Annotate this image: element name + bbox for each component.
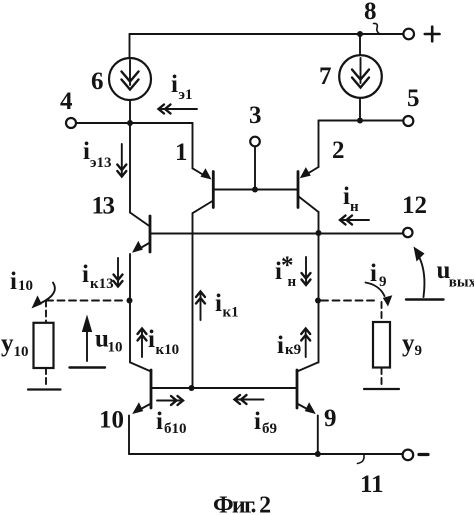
current arrow i_к1: [196, 292, 205, 321]
voltage arrow u_вых: [406, 247, 444, 300]
svg-text:y: y: [1, 330, 14, 357]
svg-text:i: i: [10, 268, 17, 295]
svg-text:6: 6: [91, 68, 104, 95]
current source 6: [109, 58, 151, 100]
svg-text:3: 3: [249, 102, 262, 129]
wire emitter 13 down lead: [129, 254, 131, 363]
terminal 5: [403, 116, 413, 126]
transistor 1 (PNP): [193, 123, 214, 213]
wire dashed left lower: [45, 368, 47, 387]
junction dot base rail: [252, 187, 258, 193]
junction dot emitter 9 / bottom rail: [315, 451, 321, 457]
svg-text:к1: к1: [223, 305, 239, 321]
label i_б10: [156, 408, 187, 437]
terminal 11: [403, 450, 414, 461]
label i*_н: [275, 252, 297, 290]
current arrow i_н: [340, 216, 369, 225]
current arrow i_б9: [235, 395, 264, 404]
wire bottom rail: [129, 453, 403, 455]
svg-text:к13: к13: [90, 276, 114, 292]
svg-text:i: i: [171, 71, 178, 98]
terminal 4: [66, 118, 76, 128]
current arrow i_э1: [159, 105, 198, 114]
svg-text:б9: б9: [262, 421, 277, 437]
label y_10: [1, 330, 29, 360]
junction dot node 5 rail: [357, 118, 363, 124]
wire node 4 rail: [76, 122, 193, 124]
svg-text:i: i: [254, 408, 261, 435]
svg-text:10: 10: [108, 340, 123, 356]
svg-text:вых: вых: [449, 275, 474, 291]
current arrow i_к13: [114, 258, 123, 287]
wire dashed left drop: [45, 301, 47, 323]
svg-text:i: i: [343, 183, 350, 210]
svg-text:i: i: [277, 332, 284, 359]
svg-text:12: 12: [402, 192, 427, 219]
svg-text:i: i: [215, 290, 222, 317]
current source 7: [339, 55, 382, 98]
svg-text:4: 4: [60, 88, 73, 115]
junction dot dashed right tap: [315, 298, 321, 304]
svg-text:9: 9: [324, 405, 337, 432]
svg-text:9: 9: [415, 343, 423, 359]
junction dot dashed left tap: [127, 298, 133, 304]
current arrow i_э13: [117, 144, 126, 177]
ground right: [364, 388, 399, 390]
junction dot collector 2 / rail 12: [316, 230, 322, 236]
svg-text:9: 9: [379, 274, 387, 290]
svg-text:1: 1: [175, 139, 188, 166]
junction dot collector 1 / base rail: [189, 385, 195, 391]
wire node 3 lead: [254, 147, 256, 190]
terminal 3: [250, 137, 260, 147]
wire node 12 rail: [150, 233, 403, 235]
label u_10: [95, 326, 123, 356]
svg-text:э1: э1: [179, 87, 193, 103]
transistor 10 (NPN): [129, 363, 151, 455]
wire current source 6 top lead: [129, 34, 131, 58]
current arrow i_к9: [301, 329, 310, 358]
terminal 8: [403, 29, 414, 40]
svg-text:y: y: [402, 330, 415, 357]
wire collector 1 down lead: [192, 213, 194, 388]
svg-text:2: 2: [332, 137, 345, 164]
svg-text:i: i: [148, 326, 155, 353]
wire current source 7 bottom lead: [359, 98, 361, 121]
terminal 12: [403, 228, 412, 237]
current arrow i_б10: [157, 396, 183, 405]
transistor 13 (NPN): [130, 123, 150, 253]
label i_н: [343, 183, 359, 215]
label y_9: [402, 330, 422, 359]
svg-text:5: 5: [407, 85, 420, 112]
wire dashed right lower: [381, 368, 383, 387]
voltage arrow u_10: [70, 315, 106, 368]
label i_э1: [171, 71, 192, 103]
svg-text:б10: б10: [164, 421, 187, 437]
admittance y9: [373, 322, 390, 368]
label i_к9: [277, 332, 301, 359]
wire current source 7 top lead: [359, 34, 361, 55]
wire current source 6 bottom lead: [129, 100, 131, 123]
tick for label 11: [358, 455, 365, 464]
ground left: [28, 388, 61, 390]
svg-text:10: 10: [14, 344, 29, 360]
transistor 2 (PNP): [298, 121, 319, 213]
junction dot node 4 / source 6: [127, 120, 133, 126]
label +: [425, 27, 440, 42]
wire node 5 rail: [319, 120, 404, 122]
admittance y10: [34, 323, 54, 368]
svg-text:i: i: [82, 261, 89, 288]
current arrow i_9: [366, 283, 393, 307]
label i_б9: [254, 408, 277, 437]
wire top rail: [130, 33, 403, 35]
label - (minus): [419, 453, 428, 456]
svg-text:к10: к10: [156, 342, 180, 358]
tick for label 8: [374, 23, 379, 33]
label i_к1: [215, 290, 239, 321]
svg-text:н: н: [350, 199, 359, 215]
label i_к13: [82, 261, 114, 292]
wire dashed right drop: [381, 302, 383, 322]
junction dot top rail / source 7: [357, 31, 363, 37]
svg-text:i: i: [156, 408, 163, 435]
svg-text:i: i: [83, 138, 90, 165]
current arrow i_к10: [138, 329, 147, 358]
wire dashed left tap: [46, 300, 126, 302]
svg-text:Фиг. 2: Фиг. 2: [213, 493, 270, 515]
label i_10: [10, 268, 33, 295]
label i_к10: [148, 326, 179, 358]
label i_9: [370, 260, 387, 290]
wire base rail of 1 and 2: [213, 189, 298, 191]
svg-text:10: 10: [18, 278, 33, 294]
label u_вых: [437, 257, 474, 291]
wire base rail of 10 and 9: [151, 387, 297, 389]
svg-text:н: н: [288, 274, 297, 290]
svg-text:13: 13: [92, 193, 115, 220]
transistor 9 (NPN): [297, 363, 318, 455]
wire dashed right tap: [321, 300, 378, 302]
svg-text:8: 8: [364, 0, 377, 25]
svg-text:к9: к9: [285, 342, 301, 358]
svg-text:10: 10: [99, 407, 124, 434]
svg-text:7: 7: [319, 63, 332, 90]
wire collector 2 down lead: [318, 212, 320, 363]
label i_э13: [83, 138, 111, 171]
current arrow i_10: [32, 283, 55, 309]
current arrow i*_н: [302, 257, 311, 285]
svg-text:11: 11: [360, 471, 384, 498]
svg-text:э13: э13: [90, 155, 111, 171]
